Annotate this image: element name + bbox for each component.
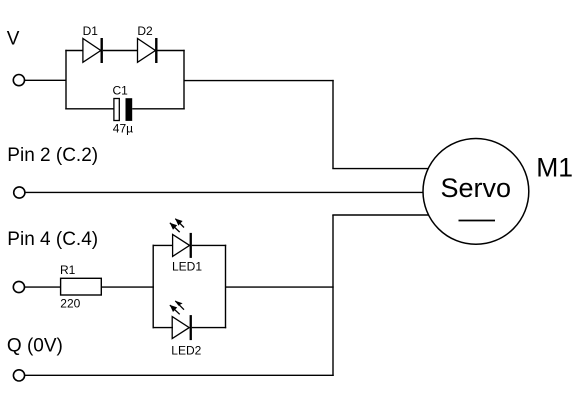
capacitor C1 — [114, 98, 132, 121]
svg-text:C1: C1 — [113, 84, 129, 98]
svg-text:LED2: LED2 — [171, 343, 201, 357]
wire LED1 branch left — [153, 244, 174, 246]
wire vertical servo bottom lead to Q — [332, 215, 334, 376]
terminal T3 (Pin 4) — [13, 281, 24, 292]
resistor R1 — [61, 278, 102, 295]
svg-text:M1: M1 — [536, 153, 573, 183]
svg-text:Servo: Servo — [441, 173, 512, 203]
wire LED box left vertical — [152, 245, 154, 329]
LED LED2 — [170, 301, 192, 340]
wire LED1 branch right — [192, 244, 226, 246]
svg-text:D2: D2 — [137, 24, 153, 38]
wire R1 to LED box — [101, 286, 154, 288]
wire LED box right vertical — [225, 245, 227, 329]
wire box1 right vertical — [183, 50, 185, 110]
LED LED1 — [170, 219, 192, 258]
svg-text:D1: D1 — [83, 24, 99, 38]
wire LED box to node column — [226, 286, 334, 288]
svg-text:47µ: 47µ — [113, 122, 133, 136]
wire servo top lead — [332, 168, 430, 170]
diode D2 — [138, 38, 158, 63]
wire LED2 branch right — [192, 327, 226, 329]
svg-text:Pin 2 (C.2): Pin 2 (C.2) — [7, 145, 98, 166]
svg-text:Pin 4 (C.4): Pin 4 (C.4) — [7, 229, 98, 250]
svg-text:220: 220 — [60, 297, 80, 311]
diode D1 — [83, 38, 103, 63]
wire box1 left vertical — [65, 50, 67, 110]
motor M1 servo circle — [423, 139, 529, 245]
wire T1 to box — [25, 79, 66, 81]
servo underline mark — [459, 220, 496, 222]
wire LED2 branch left — [153, 327, 174, 329]
wire top branch segment right — [158, 50, 185, 52]
wire top branch segment left — [65, 50, 83, 52]
wire top branch segment middle — [103, 50, 138, 52]
wire bottom branch segment left — [65, 108, 114, 110]
wire box1 to node column — [184, 80, 334, 82]
svg-text:V: V — [7, 28, 20, 49]
svg-text:Q (0V): Q (0V) — [7, 335, 63, 356]
wire T3 to R1 — [25, 286, 61, 288]
wire servo bottom lead — [332, 214, 430, 216]
wire bottom branch segment right — [132, 108, 185, 110]
svg-text:LED1: LED1 — [172, 260, 202, 274]
wire Q to node column — [25, 374, 334, 376]
svg-text:R1: R1 — [60, 263, 76, 277]
wire Pin2 to servo — [25, 191, 430, 193]
wire vertical down to servo top lead — [332, 80, 334, 169]
terminal T4 (Q) — [13, 370, 24, 381]
terminal T1 (V) — [13, 75, 24, 86]
terminal T2 (Pin 2) — [14, 187, 25, 198]
